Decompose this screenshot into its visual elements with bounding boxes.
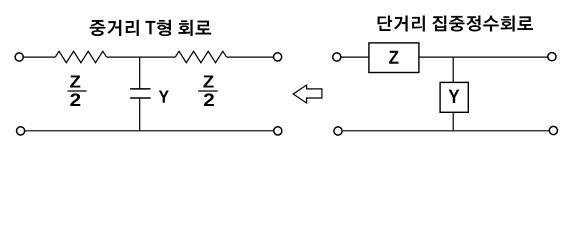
terminal: right circuit input bottom (open circle) [334, 127, 342, 135]
resistor: Z/2 (2) zigzag [175, 51, 226, 62]
wire: shunt branch from top rail down to admittance box Y [452, 57, 454, 82]
wire: left circuit top, resistor Z/2 (1) to resistor Z/2 (2) through node T [107, 56, 176, 58]
terminal: left circuit output bottom (open circle) [274, 127, 282, 135]
title: right circuit label "단거리 집중정수회로" [378, 15, 533, 31]
value label: 2 (denominator of Z/2, resistor 1) [70, 93, 80, 106]
wire: left circuit top, input terminal to resistor Z/2 (1) [24, 56, 56, 58]
value label: Z inside series box [389, 51, 398, 64]
wire: left circuit bottom rail [25, 130, 273, 132]
value label: fraction bar of Z/2 (resistor 2) [198, 90, 218, 92]
value label: fraction bar of Z/2 (resistor 1) [68, 90, 87, 92]
wire: left circuit top, resistor Z/2 (2) to output terminal [227, 56, 274, 58]
resistor: Z/2 (1) zigzag [55, 51, 106, 62]
wire: admittance box Y down to bottom rail [452, 112, 454, 131]
terminal: right circuit input top (open circle) [333, 53, 341, 61]
impedance box Z: series element rectangle [369, 43, 419, 73]
value label: Y inside shunt box [449, 90, 460, 103]
terminal: right circuit output bottom (open circle) [549, 126, 557, 134]
title: left circuit label "중거리 T형 회로" [90, 20, 212, 36]
wire: right circuit top, input terminal to impedance box Z [341, 56, 369, 58]
wire: capacitor Y bottom plate down to bottom rail [139, 98, 141, 131]
value label: Z (numerator of Z/2, resistor 1) [70, 75, 80, 87]
arrow: hollow block arrow pointing left (transformation direction) [293, 85, 322, 103]
capacitor Y: bottom plate [130, 97, 151, 99]
capacitor Y: top plate [130, 88, 151, 90]
terminal: left circuit input bottom (open circle) [17, 127, 25, 135]
value label: Z (numerator of Z/2, resistor 2) [203, 75, 213, 87]
admittance box Y: shunt element rectangle [440, 82, 468, 112]
wire: right circuit bottom rail [343, 130, 549, 132]
value label: 2 (denominator of Z/2, resistor 2) [204, 93, 214, 106]
wire: shunt branch from node T down to capacitor Y top plate [139, 57, 141, 89]
terminal: left circuit output top (open circle) [274, 53, 282, 61]
wire: right circuit top, box Z to output terminal through shunt node [419, 56, 548, 58]
terminal: right circuit output top (open circle) [548, 53, 556, 61]
terminal: left circuit input top (open circle) [15, 53, 23, 61]
value label: Y (shunt capacitor admittance) [159, 90, 169, 102]
